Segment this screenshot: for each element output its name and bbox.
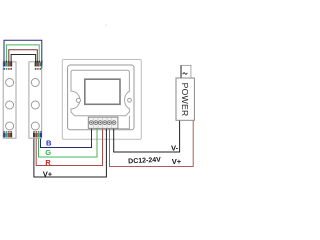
svg-text:POWER: POWER [180, 83, 190, 117]
svg-text:B: B [46, 138, 52, 147]
svg-text:DC12-24V: DC12-24V [128, 157, 161, 166]
svg-text:V+: V+ [43, 169, 53, 178]
svg-text:G: G [45, 148, 51, 157]
svg-text:V+: V+ [172, 157, 182, 166]
svg-text:R: R [45, 158, 51, 167]
svg-text:V-: V- [171, 144, 179, 153]
